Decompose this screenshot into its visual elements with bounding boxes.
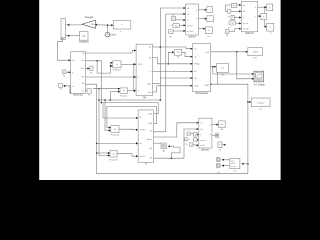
arrow into wind 4 — [70, 92, 72, 94]
block source s2 — [227, 9, 231, 13]
svg-text:q: q — [209, 134, 210, 136]
wire s2 out — [231, 10, 241, 12]
svg-text:w2: w2 — [187, 14, 189, 16]
wire s1 out — [237, 4, 242, 6]
svg-text:w/SB: w/SB — [231, 163, 235, 165]
svg-text:×: × — [116, 63, 118, 67]
arrow into t scope — [111, 24, 113, 26]
wire A5 out — [197, 139, 199, 141]
arrow integr in — [249, 101, 251, 103]
svg-text:res: res — [259, 108, 262, 111]
arrow rQ a — [222, 165, 224, 167]
svg-text:wt2d+t: wt2d+t — [189, 35, 196, 38]
block subsystem inverter — [138, 110, 153, 166]
arrow Product8 in1 — [108, 152, 110, 154]
arrow inv p4 — [136, 155, 138, 157]
block sink rQ — [217, 163, 221, 167]
arrow Product8 in2 — [108, 154, 110, 156]
wire b2 out2 — [258, 15, 261, 17]
arrow mach p5 a — [191, 77, 193, 79]
icon AA — [162, 144, 165, 147]
svg-text:T1: T1 — [219, 149, 221, 151]
arrow into TEM — [246, 51, 248, 53]
svg-text:u1: u1 — [194, 49, 196, 51]
svg-text:F8: F8 — [226, 35, 228, 37]
block source A1 — [187, 132, 190, 135]
wire f78 out — [176, 19, 186, 21]
arrow into F1r — [87, 67, 89, 69]
svg-text:Tem: Tem — [206, 52, 210, 54]
arrow mach p3 a — [191, 63, 193, 65]
wire Product8 in2 wire — [99, 89, 110, 156]
arrow into b1 — [265, 6, 267, 8]
arrow Product1 in2 — [111, 65, 113, 67]
block fcn integr — [251, 98, 270, 107]
svg-text:Vd: Vd — [82, 83, 84, 85]
wire wind Vd down — [85, 84, 248, 174]
wire am out2 — [222, 165, 230, 167]
svg-text:p: p — [150, 71, 151, 73]
svg-text:F2: F2 — [173, 15, 175, 17]
wire s58 in — [168, 52, 174, 64]
arrow into wt p3 — [184, 19, 186, 21]
block source s1 — [231, 3, 237, 7]
block source Rg — [173, 23, 180, 27]
arrow into wt p4 — [184, 24, 186, 26]
block source A2 — [185, 138, 188, 141]
block source repeat — [229, 21, 236, 25]
block source M — [168, 29, 173, 34]
wire s1 in — [225, 5, 231, 11]
arrow into Mux1 in1 — [67, 24, 69, 26]
wire repeat out — [236, 22, 242, 24]
wire N1 v110 — [109, 92, 111, 100]
svg-text:F(w): F(w) — [147, 83, 151, 85]
svg-text:F1: F1 — [186, 144, 188, 146]
wire long v165 — [154, 14, 186, 132]
svg-text:w2: w2 — [243, 11, 245, 13]
arrow Product3 in1 — [109, 127, 111, 129]
wire meas out2 — [212, 134, 216, 136]
arrow AA a — [168, 145, 170, 147]
svg-text:Product1: Product1 — [113, 68, 122, 71]
svg-text:Product: Product — [120, 94, 128, 97]
block subsystem meas — [199, 118, 212, 151]
wire omega1 to Mux1 — [66, 24, 83, 26]
wire T8 in — [222, 144, 226, 146]
block sink w1 — [207, 7, 213, 13]
wire mach p6 — [157, 85, 193, 87]
svg-text:omega1: omega1 — [85, 16, 94, 19]
wire 74 to wind — [63, 85, 71, 87]
arrow meas p4 — [197, 139, 199, 141]
arrow rP a — [222, 159, 224, 161]
wire Product2 in1 wire — [93, 88, 120, 90]
svg-text:u8: u8 — [150, 131, 152, 133]
svg-text:u: u — [138, 50, 139, 52]
svg-text:×: × — [114, 128, 116, 132]
wire meas p2 from d3 — [154, 129, 199, 158]
svg-text:+(2/2): +(2/2) — [138, 64, 143, 66]
block fcn f78 — [172, 17, 176, 21]
block sink AA — [161, 143, 166, 149]
wire mach p3 — [153, 58, 193, 64]
arrow conv p2 — [134, 76, 136, 78]
clock Clock — [105, 32, 117, 37]
block sink T8 — [218, 142, 222, 148]
block sink rP — [217, 157, 221, 161]
arrow into wt2abc p2 — [184, 13, 186, 15]
wire wt out3 — [199, 28, 206, 30]
arrow meas p1 — [197, 122, 199, 124]
svg-text:freq: freq — [148, 91, 151, 94]
svg-text:w1: w1 — [200, 123, 202, 125]
svg-text:×〈: ×〈 — [169, 24, 172, 27]
arrow meas p3 — [197, 133, 199, 135]
wire s3 out — [234, 17, 241, 19]
svg-text:Pgrid: Pgrid — [194, 85, 198, 88]
svg-text:Vw: Vw — [82, 36, 86, 38]
arrow into b3 — [265, 26, 267, 28]
arrow meas p5 — [197, 144, 199, 146]
block sink 1pr — [219, 121, 226, 128]
arrow b2 p3 — [239, 16, 241, 18]
svg-text:7-8: 7-8 — [172, 19, 175, 21]
svg-text:mm27: mm27 — [140, 156, 145, 158]
arrow into wind In1 — [69, 59, 71, 61]
svg-text:p/buzz1: p/buzz1 — [201, 148, 210, 151]
block product Product1 — [113, 61, 121, 68]
icon rP — [217, 158, 219, 160]
scope XY Graph — [254, 71, 266, 86]
arrow into omega1 — [95, 24, 97, 26]
wire Rg out — [180, 24, 186, 26]
wire conv Fw to mach — [159, 78, 161, 84]
wire b2 out1 — [258, 6, 267, 8]
wire conv freq out — [153, 91, 157, 93]
svg-text:s: s — [209, 125, 210, 127]
arrow into wind 2 — [69, 71, 71, 73]
block sink b3 — [267, 23, 274, 31]
wire Product1 out — [121, 63, 136, 65]
wire Product1 in2 stub — [111, 65, 113, 67]
arrow into wt p5 — [184, 30, 186, 32]
gain omega1 — [82, 16, 96, 29]
wire wt out2 — [199, 18, 207, 20]
arrow into sink w1 — [205, 9, 207, 11]
wire wt out1 — [199, 9, 207, 11]
block scope t — [113, 21, 131, 29]
arrow inv p3 — [136, 142, 138, 144]
wire M out — [173, 30, 185, 32]
arrow Product2 in2 — [118, 91, 120, 93]
block constant Vw — [79, 32, 89, 44]
arrow b2 p4 — [239, 22, 241, 24]
wire Product3 in2 wire — [105, 100, 111, 131]
block subsystem conv — [136, 44, 152, 99]
block mux Mux1 — [60, 19, 67, 41]
svg-text:Clock: Clock — [110, 35, 117, 37]
svg-text:KOIST: KOIST — [140, 130, 146, 132]
arrow inv p1 — [136, 117, 138, 119]
block fcn s58 — [174, 50, 182, 56]
block source A3 — [190, 143, 193, 147]
wire nest N2 — [103, 103, 158, 118]
arrow b2 p1 — [239, 4, 241, 6]
arrow Product3 in2 — [109, 129, 111, 131]
arrow PI in a — [214, 66, 216, 68]
wire clock net — [96, 24, 114, 26]
block sink b2 — [261, 13, 267, 19]
wire WNB out — [211, 84, 248, 174]
wire am out1 — [222, 159, 230, 161]
svg-text:TQM: TQM — [253, 52, 258, 54]
svg-text:X-Y Graph: X-Y Graph — [254, 83, 266, 86]
wire wind Pel to conv — [85, 76, 136, 78]
wire PI branch — [213, 67, 254, 74]
icon rQ — [217, 164, 219, 166]
wire Tem out — [211, 51, 248, 53]
block source F1 — [62, 70, 66, 74]
block product Product3 — [111, 126, 119, 133]
wire Vw to Mux1 — [66, 35, 80, 37]
svg-text:F7: F7 — [228, 28, 230, 30]
svg-text:P/Weg: P/Weg — [194, 64, 199, 66]
arrow inv p2 — [136, 129, 138, 131]
canvas — [39, 0, 280, 180]
svg-text:am: am — [233, 171, 236, 173]
wire wind 3u to T1 — [85, 90, 87, 92]
svg-text:wt2d+C: wt2d+C — [245, 32, 253, 35]
svg-text:Wr: Wr — [82, 59, 85, 62]
svg-text:×: × — [113, 152, 115, 156]
svg-text:rQ: rQ — [217, 171, 220, 174]
block source A5 — [194, 138, 198, 142]
svg-text:o: o — [191, 144, 192, 146]
block product Product2 — [120, 88, 127, 94]
wire A3 out — [193, 144, 199, 147]
block goto F1r — [90, 66, 94, 70]
icon sc1 — [216, 134, 218, 137]
wire wind W to conv — [85, 51, 136, 54]
wire Product2 in2 wire — [110, 91, 120, 93]
wire mach p4 — [153, 71, 193, 73]
wire Product8 in1 wire — [97, 152, 110, 154]
arrow b2 p5 — [239, 28, 241, 30]
arrow into sink w2 — [205, 18, 207, 20]
block subsystem wt2abc2 — [241, 1, 257, 35]
wire 74 branch down — [69, 86, 72, 93]
wire AA feed — [168, 146, 180, 158]
block sink sc1 — [216, 133, 219, 138]
arrow mach p1 — [191, 48, 193, 50]
svg-text:7-8: 7-8 — [227, 17, 230, 19]
block sink w2 — [207, 16, 214, 22]
wire PI in — [211, 66, 217, 68]
arrow XY in1 — [252, 73, 254, 75]
arrow into wind 3 — [64, 85, 66, 87]
block sink b1 — [267, 4, 273, 11]
wire meas out1 — [212, 124, 219, 126]
block source s3 — [231, 15, 234, 19]
arrow Product2 in1 — [118, 88, 120, 90]
wire A4 out — [197, 134, 199, 136]
svg-text:W: W — [149, 47, 151, 49]
wire wind 3xC to F1r — [85, 67, 89, 69]
wire b1 branch — [265, 7, 267, 26]
wire F1 to wind — [66, 71, 71, 73]
svg-text:Mechanical: Mechanical — [196, 92, 209, 95]
arrow conv p4 — [134, 90, 136, 92]
svg-text:W: W — [149, 57, 151, 59]
svg-text:w1: w1 — [243, 5, 245, 7]
svg-text:Rpwm: Rpwm — [147, 139, 153, 141]
wire wind Wr — [85, 61, 101, 103]
block product Product8 — [110, 151, 117, 158]
svg-text:1u2: 1u2 — [233, 5, 236, 7]
wire mach p5 — [160, 77, 192, 79]
arrow T8 a — [223, 144, 225, 146]
block scope TEM — [248, 48, 262, 56]
arrow am in — [242, 163, 244, 165]
svg-text:o: o — [195, 134, 196, 136]
svg-text:w1: w1 — [194, 71, 196, 73]
wire inv p3 wire — [97, 142, 139, 144]
wire s58 out — [182, 52, 193, 56]
wire clock to junction — [107, 25, 109, 32]
block source A4 — [194, 132, 198, 136]
arrow into 1pr — [217, 124, 219, 126]
arrow into wt2abc p1 — [184, 7, 186, 9]
svg-text:s: s — [255, 16, 256, 18]
wire Mux1 to wind — [57, 38, 70, 61]
svg-text:×: × — [123, 89, 125, 93]
svg-text:8: 8 — [227, 31, 228, 33]
wire Product3 out — [119, 128, 138, 131]
svg-text:1pr: 1pr — [221, 123, 224, 126]
svg-text:Product3: Product3 — [111, 134, 120, 137]
svg-text:8: 8 — [232, 17, 233, 19]
wire Tem down — [237, 52, 254, 79]
svg-text:a0: a0 — [140, 143, 142, 145]
arrow conv p1 — [134, 50, 136, 52]
svg-text:u2: u2 — [194, 57, 196, 59]
wire wind Wr branchA — [97, 61, 113, 73]
svg-text:In1: In1 — [72, 60, 75, 62]
wire branch down — [133, 64, 135, 90]
arrow XY in2 — [252, 78, 254, 80]
svg-text:w1: w1 — [187, 8, 189, 10]
block controller PI1 — [216, 64, 228, 73]
svg-text:W: W — [82, 53, 84, 55]
svg-text:5-8: 5-8 — [177, 52, 180, 54]
svg-text:o: o — [188, 133, 189, 135]
wire conv Fw out — [153, 83, 161, 85]
svg-text:w2: w2 — [200, 129, 202, 131]
block source 74 — [59, 84, 63, 88]
wire A1 out — [190, 133, 193, 135]
svg-text:s: s — [196, 19, 197, 21]
wire machine p1 wire — [153, 47, 193, 49]
arrow meas p2 — [197, 128, 199, 130]
wire Product2 out — [127, 90, 136, 92]
svg-text:Rg: Rg — [175, 25, 177, 27]
wire meas p1 long — [154, 123, 199, 137]
wire nest N1 — [99, 8, 186, 100]
arrow into sink w3 — [203, 28, 205, 30]
svg-text:wind_Q2: wind_Q2 — [73, 94, 83, 97]
svg-text:w8: w8 — [194, 78, 196, 80]
arrow mach p2 — [191, 56, 193, 58]
svg-text:3u: 3u — [82, 90, 84, 92]
block subsystem wind — [71, 52, 86, 97]
arrow mach p6 a — [191, 85, 193, 87]
block source F8 — [225, 29, 229, 33]
svg-text:<integ.p>: <integ.p> — [257, 101, 266, 104]
svg-text:Mux1: Mux1 — [60, 38, 67, 41]
wire into am — [242, 163, 248, 165]
block subsystem wt2abc — [186, 4, 199, 38]
svg-text:5/8: 5/8 — [177, 57, 180, 59]
arrow into Mux1 in2 — [67, 35, 69, 37]
svg-text:Product8: Product8 — [109, 158, 118, 161]
arrow conv p2b — [134, 63, 136, 65]
block subsystem am — [230, 159, 240, 169]
wire nest N3 — [107, 107, 157, 128]
block goto T1 — [87, 89, 91, 94]
svg-text:Tem: Tem — [253, 58, 257, 60]
arrow Product1 in1 — [111, 62, 113, 64]
wire hB stub — [154, 142, 161, 144]
block subsystem Mechanical — [193, 44, 211, 95]
arrow mach p4 a — [191, 71, 193, 73]
wire freq to mach — [156, 86, 158, 92]
wire PI down — [217, 72, 219, 84]
arrow b2 p2 — [239, 10, 241, 12]
arrow into b2 — [259, 15, 261, 17]
wire into integr — [248, 101, 251, 103]
wire F8 out — [229, 29, 241, 32]
svg-text:Constant: Constant — [79, 41, 89, 44]
arrow s58 in a — [172, 51, 174, 53]
wire Product8 out — [117, 154, 138, 157]
block sink w3 — [205, 27, 212, 34]
